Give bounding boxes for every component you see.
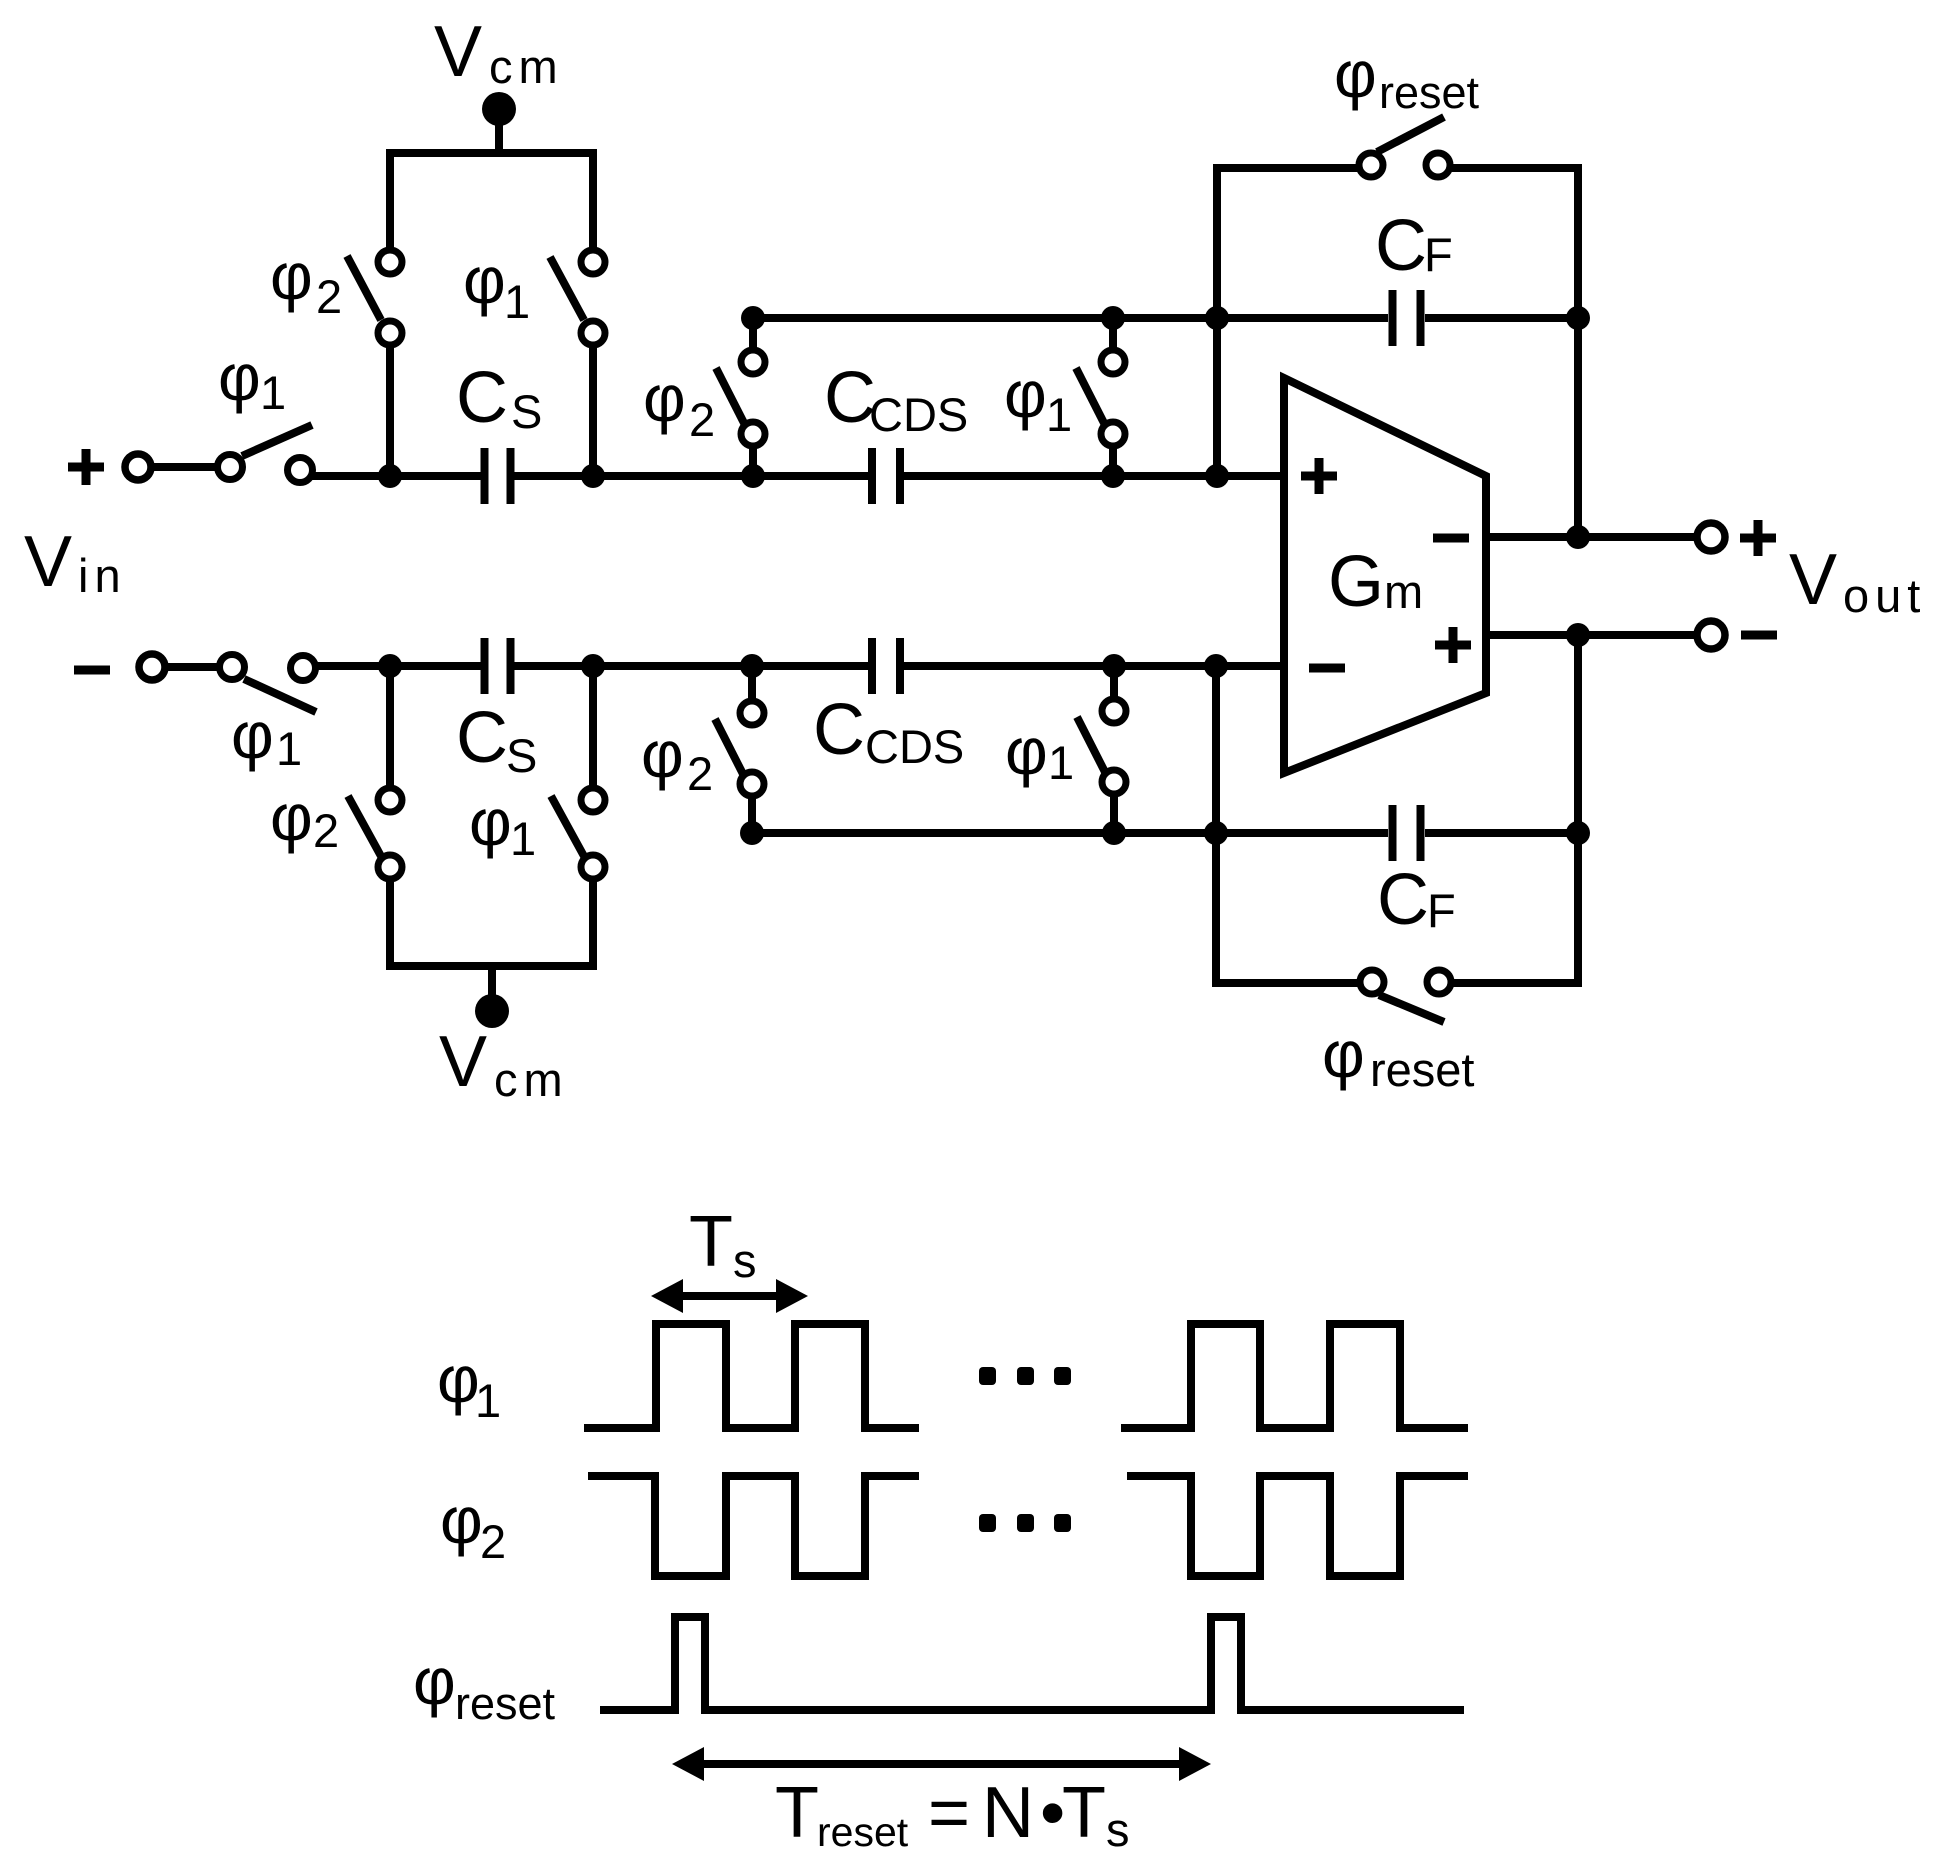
svg-text:reset: reset (817, 1809, 909, 1855)
svg-text:φ: φ (469, 785, 512, 859)
svg-text:1: 1 (1046, 388, 1072, 441)
node junction dot (1114,666) (1102, 654, 1126, 678)
wire right feedback vertical (top) (1574, 168, 1582, 537)
switch phi1 (input -, series) (220, 655, 317, 713)
terminal circle Vout+ (1697, 523, 1725, 551)
wire Cs to CCDS (bottom) (514, 662, 868, 670)
wire input- to Cs (bottom) (314, 662, 481, 670)
wire top Vcm bar (390, 153, 593, 250)
svg-text:C: C (456, 358, 508, 438)
label CS (bottom) (456, 698, 537, 782)
switch phireset (top) (1359, 117, 1450, 177)
capacitor CF (bottom feedback) (1393, 805, 1421, 861)
svg-text:C: C (1375, 206, 1427, 286)
switch phi1 (bottom Vcm box right) (551, 672, 605, 966)
svg-text:2: 2 (687, 747, 713, 800)
wire bottom reset bar left (1212, 979, 1360, 987)
node junction dot (1113,476) (1101, 464, 1125, 488)
svg-text:C: C (456, 698, 508, 778)
dots ellipsis (phi2 row) (979, 1514, 1071, 1532)
label CF (top) (1375, 206, 1453, 286)
wire amp upper output (1486, 533, 1697, 541)
svg-text:out: out (1843, 569, 1926, 622)
waveform phireset (600, 1617, 1464, 1710)
wire bottom Vcm bar (386, 962, 597, 970)
Vcm top terminal dot (482, 92, 516, 126)
waveform phi2 right group (1127, 1476, 1468, 1576)
label - (Vin negative terminal) (74, 666, 110, 675)
svg-text:cm: cm (489, 40, 564, 93)
svg-text:G: G (1328, 542, 1384, 622)
waveform phi1 left group (584, 1324, 919, 1428)
svg-text:F: F (1424, 228, 1453, 281)
svg-text:F: F (1427, 884, 1456, 937)
Ts double arrow (651, 1279, 808, 1313)
label phi2 (top Vcm box) (270, 239, 342, 323)
svg-text:φ: φ (413, 1644, 456, 1718)
label - (Vout negative) (1741, 631, 1777, 640)
svg-text:T: T (1062, 1773, 1106, 1853)
node Vcm (bottom) label (439, 1022, 569, 1106)
label phi1 (bottom CDS) (1005, 714, 1074, 789)
node Vcm (top) label (434, 12, 564, 93)
label phi2 (timing) (440, 1483, 506, 1568)
svg-text:1: 1 (510, 812, 536, 865)
label phi1 (input - switch) (231, 698, 302, 775)
label - (amp upper output) (1433, 534, 1469, 543)
capacitor CF (top feedback) (1393, 290, 1421, 346)
label Vout (1789, 540, 1926, 622)
capacitor CS (bottom) (485, 638, 511, 694)
svg-text:φ: φ (1005, 714, 1048, 788)
svg-text:V: V (434, 12, 482, 92)
svg-text:2: 2 (689, 393, 715, 446)
label Ts (timing) (689, 1202, 757, 1287)
svg-text:φ: φ (440, 1483, 483, 1557)
wire top reset bar left (1213, 164, 1360, 172)
svg-text:2: 2 (316, 270, 342, 323)
wire input+ to Cs (311, 472, 481, 480)
switch phi1 (top CDS right) (1076, 318, 1125, 470)
node junction dot (593,476) (581, 464, 605, 488)
svg-text:CDS: CDS (865, 720, 964, 773)
label phireset (top) (1334, 37, 1480, 118)
node junction dot (1578,833) (1566, 821, 1590, 845)
capacitor CCDS (top) (872, 448, 900, 504)
terminal circle Vout- (1697, 621, 1725, 649)
svg-text:V: V (439, 1022, 487, 1102)
waveform phi2 left group (588, 1476, 919, 1576)
wire CCDS to amp (bottom) (904, 662, 1284, 670)
label + (amp lower output) (1435, 627, 1471, 663)
svg-text:T: T (775, 1773, 819, 1853)
svg-text:1: 1 (260, 366, 286, 419)
svg-text:φ: φ (1322, 1017, 1365, 1091)
switch phi2 (top Vcm box left) (347, 250, 402, 470)
node junction dot (390,476) (378, 464, 402, 488)
switch phi2 (bottom Vcm box left) (348, 672, 402, 966)
wire Vcm stub (bottom) (488, 966, 496, 1000)
svg-text:s: s (733, 1234, 757, 1287)
node junction dot (1578,537) (1566, 525, 1590, 549)
label Gm (1328, 542, 1423, 622)
svg-text:φ: φ (463, 243, 506, 317)
svg-text:V: V (24, 522, 72, 602)
label CCDS (top) (824, 358, 968, 441)
terminal circle Vin- (139, 654, 165, 680)
wire Vin- to switch (165, 663, 220, 671)
switch phi1 (bottom CDS right) (1077, 672, 1126, 833)
svg-text:φ: φ (218, 340, 261, 414)
label phireset (timing) (413, 1644, 556, 1729)
capacitor CS (top) (485, 448, 511, 504)
switch phi1 (input +, series) (218, 425, 313, 483)
svg-text:N: N (982, 1773, 1034, 1853)
node junction dot (752,833) (740, 821, 764, 845)
switch phi2 (bottom CDS left) (715, 672, 764, 833)
node junction dot (1217,476) (1205, 464, 1229, 488)
label phi1 (top CDS) (1004, 357, 1072, 441)
wire top CDS line right segment (1425, 314, 1578, 322)
svg-text:1: 1 (1048, 736, 1074, 789)
wire left feedback vertical (top) (1213, 168, 1221, 470)
wire top CDS line left segment (753, 314, 1388, 322)
svg-text:1: 1 (276, 722, 302, 775)
capacitor CCDS (bottom) (872, 638, 900, 694)
svg-text:2: 2 (313, 804, 339, 857)
svg-text:φ: φ (270, 239, 313, 313)
label + (Vout positive) (1740, 520, 1776, 556)
terminal circle Vin+ (125, 454, 151, 480)
node junction dot (752,666) (740, 654, 764, 678)
dots ellipsis (phi1 row) (979, 1367, 1071, 1385)
switch phireset (bottom) (1360, 970, 1451, 1022)
waveform phi1 right group (1121, 1324, 1468, 1428)
svg-text:C: C (813, 690, 865, 770)
label phi2 (top CDS) (643, 361, 715, 446)
label phi1 (bottom Vcm box) (469, 785, 536, 865)
label phi1 (input + switch) (218, 340, 286, 419)
svg-text:=: = (928, 1773, 970, 1853)
svg-text:T: T (689, 1202, 733, 1282)
label phi2 (bottom Vcm box) (270, 780, 339, 857)
svg-text:1: 1 (504, 275, 530, 328)
label + (Vin positive terminal) (68, 449, 104, 485)
wire top reset bar right (1450, 164, 1582, 172)
svg-text:reset: reset (1379, 67, 1480, 118)
label + (amp upper input) (1301, 458, 1337, 494)
label - (amp lower input) (1309, 664, 1345, 673)
wire right feedback vertical (bottom) (1574, 635, 1582, 983)
svg-text:cm: cm (494, 1053, 569, 1106)
wire left feedback vertical (bottom) (1212, 672, 1220, 983)
wire Cs to CCDS (top) (514, 472, 868, 480)
svg-text:V: V (1789, 540, 1837, 620)
svg-text:C: C (1377, 860, 1429, 940)
node junction dot (753,476) (741, 464, 765, 488)
op-amp Gm (1284, 378, 1486, 773)
node junction dot (1113,318) (1101, 306, 1125, 330)
svg-text:φ: φ (270, 780, 313, 854)
label Treset = N*Ts (775, 1773, 1130, 1855)
switch phi2 (top CDS left) (716, 318, 765, 470)
svg-text:m: m (1384, 565, 1423, 618)
svg-text:s: s (1106, 1803, 1130, 1855)
wire Vcm stub to top bar (495, 112, 503, 153)
node junction dot (593,666) (581, 654, 605, 678)
label CCDS (bottom) (813, 690, 964, 773)
svg-text:in: in (78, 549, 127, 602)
wire CCDS to amp (top) (904, 472, 1284, 480)
svg-text:φ: φ (643, 361, 686, 435)
svg-text:2: 2 (480, 1515, 506, 1568)
label phireset (bottom) (1322, 1017, 1475, 1096)
label CS (top) (456, 358, 542, 438)
node junction dot (1114,833) (1102, 821, 1126, 845)
svg-text:CDS: CDS (869, 388, 968, 441)
wire amp lower output (1486, 631, 1697, 639)
Vcm bottom terminal dot (475, 994, 509, 1028)
node junction dot (1578,635) (1566, 623, 1590, 647)
svg-text:φ: φ (437, 1342, 480, 1416)
label phi1 (timing) (437, 1342, 501, 1427)
wire bottom CDS line right segment (1425, 829, 1578, 837)
svg-text:φ: φ (1004, 357, 1047, 431)
label phi1 (top Vcm box) (463, 243, 530, 328)
node junction dot (753,318) (741, 306, 765, 330)
svg-text:S: S (506, 729, 537, 782)
svg-text:φ: φ (641, 717, 684, 791)
wire bottom CDS line left segment (752, 829, 1388, 837)
svg-text:reset: reset (1370, 1043, 1475, 1096)
svg-text:reset: reset (455, 1678, 556, 1729)
node junction dot (1216,833) (1204, 821, 1228, 845)
node junction dot (1217,318) (1205, 306, 1229, 330)
node junction dot (1578,318) (1566, 306, 1590, 330)
switch phi1 (top Vcm box right) (550, 250, 605, 470)
label Vin (24, 522, 127, 602)
svg-text:φ: φ (1334, 37, 1377, 111)
node junction dot (1216,666) (1204, 654, 1228, 678)
label phi2 (bottom CDS) (641, 717, 713, 800)
node junction dot (390,666) (378, 654, 402, 678)
label CF (bottom) (1377, 860, 1456, 940)
svg-text:φ: φ (231, 698, 274, 772)
Treset double arrow (672, 1747, 1211, 1781)
svg-text:1: 1 (475, 1374, 501, 1427)
wire bottom reset bar right (1451, 979, 1582, 987)
wire Vin+ to switch (151, 463, 218, 471)
svg-text:S: S (511, 385, 542, 438)
